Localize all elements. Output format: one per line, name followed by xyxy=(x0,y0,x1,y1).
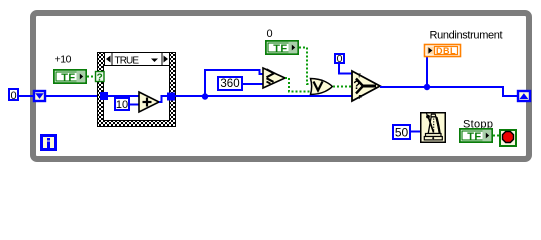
numeric constant 50 xyxy=(393,125,410,140)
svg-text:Rundinstrument: Rundinstrument xyxy=(430,30,503,42)
wire: 360 to greater-or-equal xyxy=(243,83,263,85)
tunnel (case left) xyxy=(100,92,108,100)
wire: constant 0 to left shift register xyxy=(19,95,33,97)
shift register right (up arrow) xyxy=(518,91,530,101)
junction dot xyxy=(424,84,430,90)
greater-or-equal function xyxy=(263,68,285,88)
wire: tunnel to add function xyxy=(108,95,139,97)
add function xyxy=(139,92,159,112)
svg-text:10: 10 xyxy=(116,99,128,111)
wire: add output to right tunnel xyxy=(159,96,167,102)
svg-text:DBL: DBL xyxy=(436,46,456,56)
numeric constant 360 xyxy=(218,77,242,90)
junction dot xyxy=(202,93,208,99)
while loop xyxy=(33,13,529,159)
boolean control TF (+10) xyxy=(53,69,87,84)
wire: branch up to DBL indicator xyxy=(426,56,428,87)
loop condition terminal (stop button) xyxy=(500,130,516,146)
svg-text:+10: +10 xyxy=(55,54,72,66)
iteration terminal i xyxy=(42,136,56,150)
wire: branch up to greater-or-equal xyxy=(205,70,263,96)
numeric constant 10 xyxy=(115,98,129,111)
wire: constant 0 to select t input xyxy=(339,64,352,74)
svg-text:50: 50 xyxy=(395,126,409,140)
wire: main wire tunnel to select function xyxy=(175,95,352,97)
wire: constant 10 to add function xyxy=(130,104,139,106)
select function xyxy=(352,71,380,101)
numeric constant 0 (left, outside loop) xyxy=(9,89,18,102)
or function xyxy=(311,79,333,95)
wire: shift register to case tunnel xyxy=(46,95,101,97)
boolean control TF (0) xyxy=(265,40,299,55)
wire: dotted TF 0 to or function xyxy=(299,48,310,85)
svg-text:0: 0 xyxy=(337,53,343,65)
tunnel (case right) xyxy=(167,93,175,101)
case selector terminal ? xyxy=(96,72,105,84)
wire: dotted Stopp to loop condition xyxy=(493,135,499,137)
wire: dotted greater-or-equal to or function xyxy=(285,78,310,92)
wire: dotted or to select xyxy=(333,86,352,88)
svg-text:?: ? xyxy=(353,80,360,92)
DBL indicator xyxy=(425,45,461,57)
numeric constant 0 (above select) xyxy=(335,53,344,65)
boolean control TF (Stopp) xyxy=(459,128,493,143)
wire: 50 to wait function xyxy=(411,131,420,133)
shift register left (down arrow) xyxy=(34,91,45,101)
wire: dotted boolean TF to case selector xyxy=(87,76,96,78)
case selector label TRUE xyxy=(105,53,170,67)
svg-text:360: 360 xyxy=(220,78,239,90)
case structure border xyxy=(98,53,176,127)
wait until next ms multiple (metronome) xyxy=(421,113,446,143)
svg-text:0: 0 xyxy=(10,90,16,102)
svg-text:TRUE: TRUE xyxy=(115,56,140,67)
svg-text:0: 0 xyxy=(267,28,273,40)
wire: select output to right shift register xyxy=(380,87,517,96)
svg-text:?: ? xyxy=(97,73,103,84)
